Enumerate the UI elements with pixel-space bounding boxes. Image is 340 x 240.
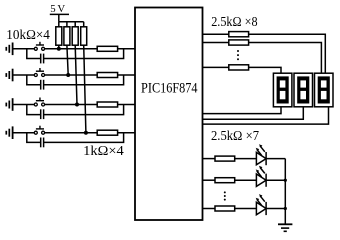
wire R2 to row2 node [67,45,68,75]
wire PIC to resistor R10 [203,42,229,44]
resistor R6 (1k series) [97,73,117,78]
resistor R16 (2.5k) [229,65,249,70]
node bus row2 junction [284,179,287,182]
node row2 junction [66,73,70,77]
wire switch S4 to resistor R8 [45,132,97,134]
node row4 junction [84,131,88,135]
svg-text:10kΩ×4: 10kΩ×4 [6,27,50,42]
microcontroller U1 PIC16F874 [135,8,203,221]
resistor R4 (10k pull-up) [81,27,87,45]
wire resistor R19 to LED D3 [235,208,257,210]
resistor R8 (1k series) [97,130,117,135]
wire display DS2 common to PIC [203,107,304,120]
ground G4 (row 4) [6,126,12,139]
wire LED D2 to cathode bus [266,179,285,181]
wire node to capacitor C2 [27,75,41,85]
wire ground to switch S4 [13,132,34,134]
capacitor C4 (debounce) [41,138,44,148]
wire PIC to resistor R9 [203,33,229,35]
7-segment display DS2 [294,73,313,107]
wire R3 to row3 node [75,45,77,104]
wire resistor R7 to PIC pin [118,104,135,106]
ellipsis dots (more LED channels) [224,191,226,200]
ground G5 (LED common) [278,224,292,231]
resistor R5 (1k series) [97,46,117,51]
wire resistor R5 to PIC pin [118,48,135,50]
wire PIC to resistor R16 [203,66,229,68]
7-segment display DS3 [315,73,334,107]
wire resistor R16 to display DS1 [249,67,281,73]
wire switch S1 to resistor R5 [45,48,97,50]
ellipsis dots (more resistors) [237,50,239,60]
capacitor C2 (debounce) [41,80,44,90]
wire resistor R18 to LED D2 [235,179,257,181]
switch S3 (push-button) [34,98,44,107]
wire capacitor C2 back to row 2 [44,75,124,85]
resistor R1 (10k pull-up) [56,27,62,45]
ground G2 (row 2) [6,69,12,82]
wire capacitor C3 back to row 3 [44,105,124,115]
wire ground to switch S2 [13,74,34,76]
node row3 junction [75,103,79,107]
wire capacitor C1 back to row 1 [44,49,124,59]
wire PIC to resistor R17 [203,158,216,160]
switch S1 (push-button) [34,42,44,51]
resistor R17 (2.5k LED) [215,156,235,161]
svg-text:V: V [57,3,65,15]
wire R1 to row1 node [58,45,60,49]
wire resistor R9 to display DS3 [249,34,326,73]
switch S4 (push-button) [34,126,44,135]
wire resistor R17 to LED D1 [235,158,257,160]
wire ground to switch S1 [13,48,34,50]
resistor R10 (2.5k) [229,40,249,45]
ground G3 (row 3) [6,98,12,111]
LED D3 [256,194,266,215]
svg-text:1kΩ×4: 1kΩ×4 [83,143,124,158]
svg-text:2.5kΩ ×7: 2.5kΩ ×7 [211,128,259,143]
capacitor C3 (debounce) [41,109,44,119]
wire switch S3 to resistor R7 [45,104,97,106]
resistor R9 (2.5k) [229,32,249,37]
resistor R2 (10k pull-up) [64,27,70,45]
wire node to capacitor C3 [27,105,41,115]
svg-text:PIC16F874: PIC16F874 [141,81,198,97]
wire PIC to resistor R18 [203,179,216,181]
LED D1 [256,144,266,165]
wire ground to switch S3 [13,104,34,106]
5 V supply symbol [50,3,69,22]
wire cathode bus [284,159,286,225]
wire node to capacitor C1 [27,49,41,59]
svg-text:2.5kΩ ×8: 2.5kΩ ×8 [211,14,257,29]
wire R4 to row4 node [84,45,86,133]
wire node to capacitor C4 [27,133,41,143]
wire resistor R6 to PIC pin [118,74,135,76]
wire capacitor C4 back to row 4 [44,133,124,143]
node row1 junction [57,47,61,51]
wire resistor R10 to display DS3 [249,43,322,74]
wire LED D1 to cathode bus [266,158,285,160]
node bus row3 junction [284,207,287,210]
svg-text:5: 5 [50,3,55,15]
7-segment display DS1 [273,73,292,107]
wire PIC to resistor R19 [203,208,216,210]
wire switch S2 to resistor R6 [45,74,97,76]
resistor R19 (2.5k LED) [215,206,235,211]
wire resistor R8 to PIC pin [118,132,135,134]
wire LED D3 to cathode bus [266,208,285,210]
switch S2 (push-button) [34,68,44,77]
wire display DS1 common to PIC [203,107,282,114]
LED D2 [256,166,266,187]
resistor R7 (1k series) [97,102,117,107]
ground G1 (row 1) [6,43,12,56]
wire display DS3 common to PIC [203,107,329,124]
capacitor C1 (debounce) [41,54,44,64]
wire 5V rail to pull-up resistors [59,22,84,27]
resistor R3 (10k pull-up) [72,27,78,45]
resistor R18 (2.5k LED) [215,178,235,183]
